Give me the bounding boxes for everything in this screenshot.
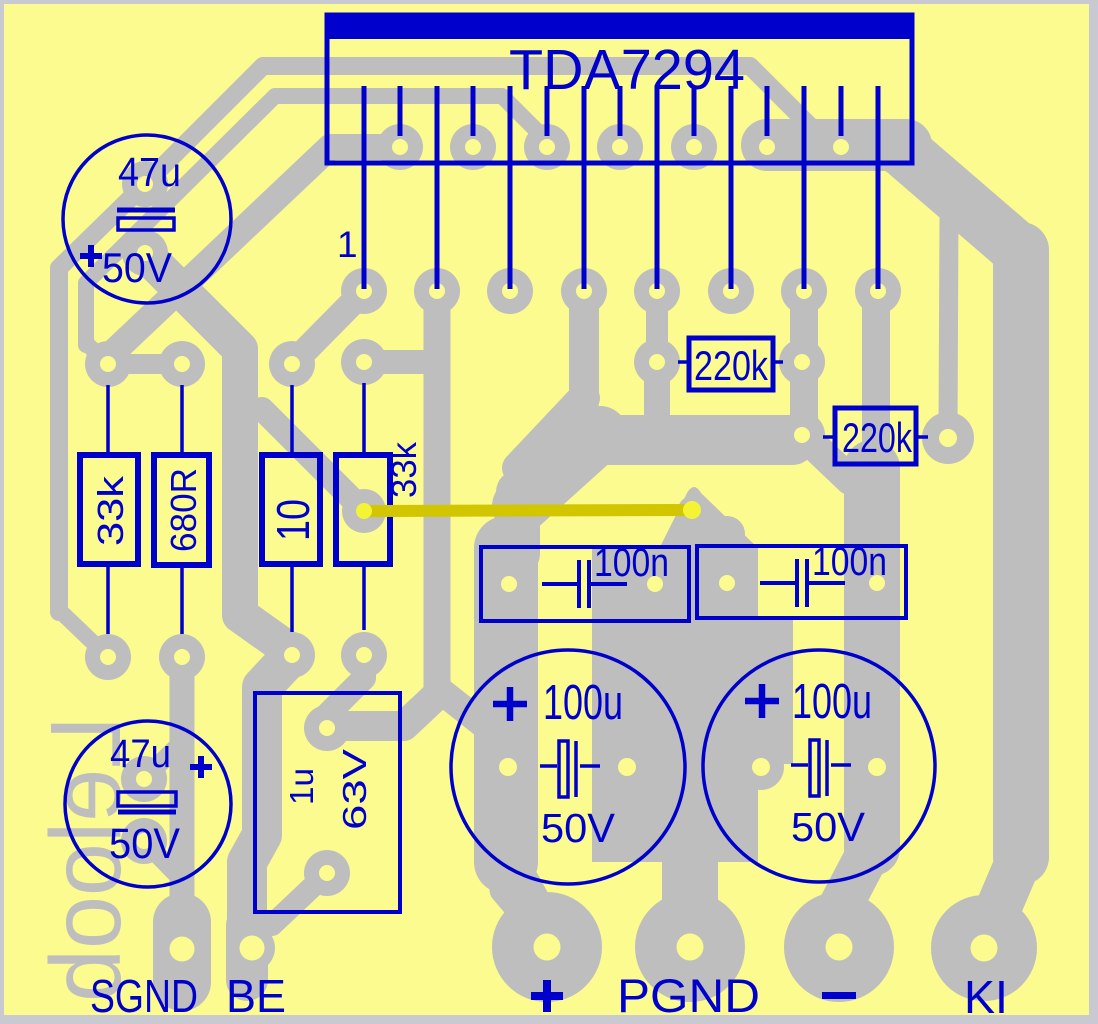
pin 6	[545, 86, 550, 136]
svg-text:33k: 33k	[385, 442, 424, 498]
wire: pin15 stem down	[862, 293, 890, 478]
wire: big horizontal y442	[588, 415, 792, 465]
svg-text:50V: 50V	[109, 820, 180, 868]
big bottom pads	[158, 892, 1037, 1002]
svg-text:KI: KI	[964, 971, 1008, 1023]
wire: V mid into + pad	[506, 858, 540, 920]
svg-text:50V: 50V	[541, 805, 616, 851]
wire: 220k-2 right pad stem from corner trace	[948, 215, 949, 434]
wire: branch to C2 top pad	[144, 742, 182, 779]
capacitor C5 100u 50V outline	[451, 650, 685, 884]
wire: jog into minus pad	[841, 846, 872, 905]
svg-text:PGND: PGND	[617, 969, 760, 1022]
capacitor C6 100u 50V outline	[703, 650, 935, 882]
wire: big diagonal into V mid	[520, 434, 600, 506]
gray mirrored text Leloob	[30, 716, 142, 1002]
wire: BE pad stadium	[226, 925, 268, 980]
wire: pin13 vertical	[790, 291, 818, 435]
svg-text:63V: 63V	[336, 749, 373, 830]
wire: pin7 vertical	[569, 291, 599, 402]
wire: via stub from jumper pad to D2 vertical	[262, 409, 364, 511]
resistor R2 leads	[180, 385, 184, 455]
svg-text:100u: 100u	[792, 675, 872, 729]
wire: bar pad 364,362 to pin3 trace	[364, 350, 437, 374]
wire: C2 bottom pad to SGND stem	[144, 841, 182, 880]
pin 10	[692, 86, 697, 136]
wire: 1u bottom stem	[272, 873, 327, 925]
wire: BE stem	[247, 655, 292, 950]
pin 5	[508, 86, 513, 289]
resistor R2 680R outline	[154, 455, 209, 565]
wire: PGND pour polygon	[592, 487, 758, 862]
wire: V mid wide	[474, 548, 538, 862]
resistor R4 leads	[362, 383, 366, 455]
svg-text:TDA7294: TDA7294	[509, 38, 745, 102]
pin 7	[582, 86, 587, 289]
capacitor C5 symbol	[540, 741, 600, 797]
capacitor C2 47u 50V outline	[65, 721, 231, 887]
svg-text:220k: 220k	[842, 414, 913, 461]
svg-text:1: 1	[337, 224, 358, 265]
pin 14	[839, 86, 844, 136]
wire: H3 corner diagonal	[898, 146, 1021, 252]
wire: right tall vertical to KI	[993, 250, 1049, 857]
resistor R5 leads	[678, 360, 689, 364]
wire: D2 from C1 bottom pad down to pad 292,655	[145, 254, 292, 652]
wire: SGND vertical	[170, 657, 195, 915]
wire: pin1 pad diagonal to pad 292,364	[292, 291, 364, 364]
wire: jumper J1	[678, 496, 706, 524]
svg-text:680R: 680R	[163, 468, 204, 552]
wire: jog into KI pad	[984, 855, 1021, 942]
svg-text:50V: 50V	[791, 804, 866, 850]
wire: 1u top pad horizontal stem to pin3 trace	[327, 694, 438, 726]
capacitor C3 100n outline	[481, 547, 689, 621]
op-amp U1 TDA7294 package outline	[327, 15, 912, 163]
pads: gray annulus with yellow hole	[85, 124, 1037, 1002]
IC row1 pads pins 2,4,6,8,10,12,14	[377, 124, 864, 170]
svg-text:100n: 100n	[812, 540, 887, 584]
wire: pour right extension under 100n caps	[756, 616, 793, 764]
IC row2 pads pins 1,3,5,7,9,11,13,15	[341, 268, 901, 314]
resistor R5 220k outline	[689, 338, 773, 390]
pin 8	[618, 86, 623, 136]
node - label	[822, 992, 856, 999]
wire: right band down to minus pad	[844, 468, 900, 848]
capacitor C6 symbol	[791, 740, 851, 796]
resistor R1 leads	[106, 385, 110, 455]
capacitor C1 polarity bars	[117, 208, 175, 213]
pin 4	[471, 86, 476, 136]
wire: H3 wide horizontal behind IC pins 12-14	[767, 119, 906, 171]
svg-text:SGND: SGND	[90, 970, 198, 1022]
pin 13	[802, 86, 807, 289]
capacitor C6 plus sign	[745, 684, 779, 718]
pin 3	[435, 86, 440, 289]
resistor R3 10 outline	[262, 455, 320, 564]
wire: left outer vertical + diagonal via C1 top pad to H1 behind IC	[59, 66, 824, 612]
svg-text:220k: 220k	[694, 342, 769, 389]
wire: wide diagonal C from pad2 down-left	[105, 147, 400, 360]
capacitor C7 1u 63V outline	[255, 693, 400, 912]
pin 15	[876, 86, 881, 289]
capacitor C3 symbol	[542, 560, 627, 608]
svg-text:100u: 100u	[543, 676, 623, 730]
wire: second left vertical + H2 to pin6 pad	[86, 96, 547, 345]
capacitor C1 plus sign	[80, 245, 102, 267]
wire: 220k-2 left pad diag to right band	[808, 440, 850, 480]
wire: pad 364,655 diagonal to 1u top pad	[327, 655, 364, 728]
resistor R3 leads	[290, 385, 294, 455]
svg-text:10: 10	[267, 499, 319, 541]
pin 2	[398, 86, 403, 136]
wire: pin9 stem to 220k-1	[646, 291, 668, 362]
wire: SGND pad stem	[153, 922, 211, 982]
component pads	[85, 161, 974, 896]
node + label	[531, 980, 563, 1012]
pin 1	[362, 86, 367, 289]
PGND copper pour	[592, 487, 793, 918]
resistor R6 leads	[823, 435, 835, 439]
resistor R6 220k outline	[835, 408, 916, 464]
wire: pin7 diagonal	[518, 398, 584, 468]
wire: 220k-1 left pad into band	[644, 380, 670, 424]
svg-text:BE: BE	[226, 970, 286, 1022]
wire: branch into pad 108,364	[86, 343, 108, 364]
capacitor C5 plus sign	[493, 687, 527, 721]
svg-text:47u: 47u	[118, 149, 181, 195]
wire: left diag into pad at 108,657	[59, 610, 108, 657]
capacitor C4 symbol	[760, 559, 845, 607]
pin 9	[655, 86, 660, 289]
svg-text:33k: 33k	[90, 475, 131, 546]
svg-text:1u: 1u	[283, 768, 320, 805]
svg-text:100n: 100n	[594, 541, 669, 585]
resistor R4 33k outline	[336, 455, 390, 564]
wire: pin3 vertical	[437, 291, 542, 936]
wire: V mid upper neck	[496, 492, 540, 554]
wire: bar between pads 108,364 and 182,364	[108, 354, 182, 374]
pin 11	[729, 86, 734, 289]
svg-text:47u: 47u	[110, 732, 171, 776]
capacitor C2 plus sign	[190, 756, 212, 778]
jumper wire (yellow)	[356, 496, 706, 524]
svg-text:50V: 50V	[102, 244, 172, 291]
resistor R1 33k outline	[80, 455, 138, 564]
capacitor C1 47u 50V outline	[63, 135, 231, 303]
pin 12	[765, 86, 770, 136]
op-amp U1 top bar	[327, 15, 912, 39]
wire: stub 100n-2 left pad up to pour shoulder	[709, 534, 745, 572]
capacitor C4 100n outline	[697, 546, 906, 618]
wire: PGND stem	[662, 858, 718, 918]
capacitor C2 polarity bars	[118, 792, 176, 806]
